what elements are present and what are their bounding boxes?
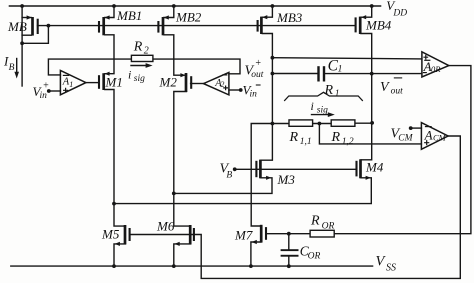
svg-text:V: V	[376, 254, 387, 270]
svg-text:1: 1	[69, 80, 73, 89]
svg-text:B: B	[226, 171, 232, 181]
svg-text:M7: M7	[234, 228, 253, 243]
svg-text:OR: OR	[322, 222, 335, 232]
svg-text:1,2: 1,2	[342, 137, 354, 147]
svg-text:2: 2	[220, 80, 224, 89]
svg-text:OR: OR	[308, 252, 321, 262]
svg-text:R: R	[133, 40, 143, 55]
svg-text:1,1: 1,1	[300, 137, 312, 147]
svg-text:DD: DD	[392, 9, 407, 19]
svg-text:V: V	[380, 80, 390, 95]
svg-text:MB3: MB3	[276, 10, 303, 25]
svg-text:2: 2	[144, 46, 149, 57]
svg-text:SS: SS	[386, 263, 396, 274]
svg-text:MB: MB	[7, 19, 27, 34]
svg-text:R: R	[331, 130, 341, 145]
svg-text:1: 1	[335, 89, 340, 99]
svg-text:A: A	[424, 127, 433, 142]
svg-text:1: 1	[338, 65, 343, 75]
svg-text:+: +	[43, 81, 50, 92]
svg-text:sig: sig	[317, 106, 328, 116]
svg-text:M3: M3	[277, 172, 296, 187]
svg-text:0R: 0R	[431, 64, 441, 74]
svg-text:CM: CM	[398, 134, 413, 144]
svg-text:B: B	[9, 63, 15, 73]
svg-text:M4: M4	[365, 160, 384, 175]
svg-text:R: R	[324, 83, 334, 98]
svg-text:R: R	[289, 130, 299, 145]
svg-text:M6: M6	[156, 219, 175, 234]
svg-text:i: i	[128, 68, 131, 82]
svg-text:+: +	[255, 58, 262, 69]
svg-text:M1: M1	[105, 75, 123, 90]
svg-text:MB4: MB4	[365, 18, 392, 33]
svg-text:CM: CM	[433, 133, 447, 143]
svg-text:M5: M5	[101, 227, 120, 242]
svg-text:in: in	[250, 89, 258, 99]
svg-text:sig: sig	[134, 74, 145, 84]
svg-text:out: out	[391, 86, 404, 96]
svg-text:R: R	[310, 214, 320, 229]
svg-text:in: in	[40, 91, 48, 101]
svg-text:out: out	[251, 70, 264, 80]
svg-text:MB1: MB1	[116, 8, 142, 23]
svg-text:M2: M2	[159, 75, 178, 90]
svg-text:i: i	[311, 99, 314, 113]
svg-text:MB2: MB2	[175, 10, 202, 25]
